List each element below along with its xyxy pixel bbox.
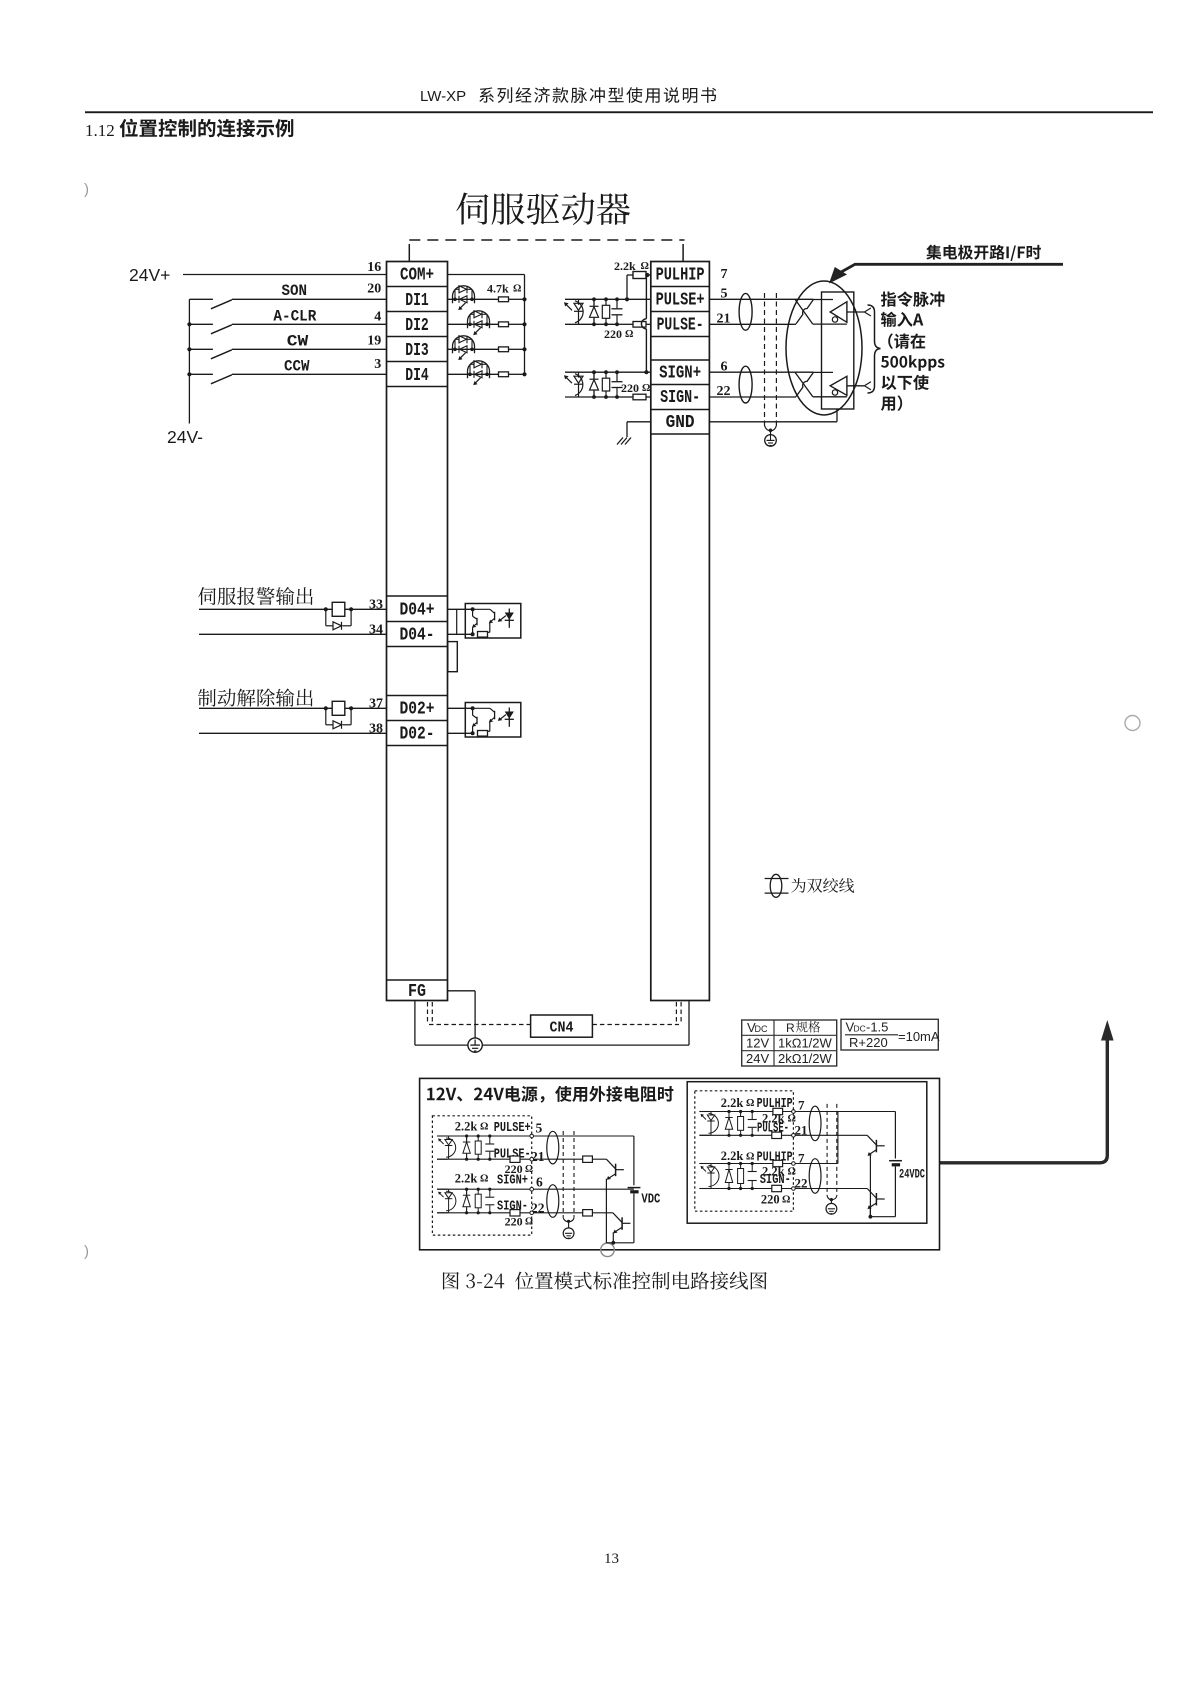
svg-text:DI2: DI2 — [405, 316, 429, 336]
svg-text:Ω: Ω — [513, 284, 521, 295]
svg-text:PULSE+: PULSE+ — [656, 290, 705, 310]
svg-text:D02+: D02+ — [400, 699, 435, 719]
svg-text:Ω: Ω — [480, 1122, 488, 1133]
svg-text:19: 19 — [367, 334, 381, 349]
svg-text:2.2k: 2.2k — [721, 1096, 744, 1110]
svg-text:Ω: Ω — [782, 1195, 790, 1206]
svg-text:21: 21 — [795, 1123, 808, 1138]
svg-text:24VDC: 24VDC — [899, 1167, 925, 1182]
svg-text:34: 34 — [369, 623, 383, 638]
svg-text:24V+: 24V+ — [129, 265, 170, 285]
svg-text:1.12: 1.12 — [85, 121, 115, 140]
svg-text:A-CLR: A-CLR — [273, 308, 317, 326]
svg-text:LW-XP: LW-XP — [420, 88, 466, 105]
svg-text:13: 13 — [604, 1551, 619, 1567]
svg-text:22: 22 — [795, 1176, 808, 1191]
svg-text:24V-: 24V- — [167, 427, 203, 447]
svg-text:DI1: DI1 — [405, 291, 429, 311]
svg-text:Ω: Ω — [642, 383, 650, 394]
svg-text:Ω: Ω — [746, 1098, 754, 1109]
svg-text:220: 220 — [621, 381, 639, 395]
svg-text:-1.5: -1.5 — [866, 1020, 888, 1035]
svg-text:COM+: COM+ — [400, 266, 434, 286]
svg-text:Ω: Ω — [525, 1217, 533, 1228]
svg-text:VDC: VDC — [641, 1193, 660, 1208]
svg-text:FG: FG — [408, 982, 426, 1002]
svg-text:DC: DC — [755, 1024, 768, 1034]
svg-text:20: 20 — [367, 282, 381, 297]
svg-text:2.2k: 2.2k — [614, 259, 636, 273]
svg-text:Ω: Ω — [641, 261, 649, 272]
svg-text:7: 7 — [798, 1151, 805, 1166]
svg-text:SON: SON — [281, 282, 307, 300]
svg-text:D04+: D04+ — [400, 600, 435, 620]
svg-text:SIGN+: SIGN+ — [659, 364, 701, 384]
svg-text:DC: DC — [854, 1024, 866, 1034]
svg-text:GND: GND — [666, 413, 695, 433]
svg-text:CCW: CCW — [284, 357, 310, 375]
svg-text:D02-: D02- — [400, 724, 435, 744]
svg-text:Ω: Ω — [625, 329, 633, 340]
svg-text:CW: CW — [287, 333, 309, 351]
svg-text:SIGN-: SIGN- — [660, 388, 700, 408]
svg-text:2.2k: 2.2k — [721, 1149, 744, 1163]
svg-text:220: 220 — [761, 1193, 780, 1207]
svg-text:PULSE+: PULSE+ — [494, 1121, 531, 1136]
svg-text:6: 6 — [536, 1174, 543, 1189]
svg-text:1kΩ1/2W: 1kΩ1/2W — [778, 1036, 833, 1051]
svg-text:Ω: Ω — [480, 1174, 488, 1185]
svg-text:16: 16 — [367, 260, 381, 275]
svg-text:R+220: R+220 — [849, 1035, 888, 1050]
svg-text:4: 4 — [374, 310, 381, 325]
svg-text:24V: 24V — [746, 1051, 769, 1066]
svg-text:=10mA: =10mA — [898, 1029, 940, 1044]
svg-text:37: 37 — [369, 697, 383, 712]
svg-text:): ) — [84, 181, 89, 198]
svg-text:3: 3 — [374, 357, 381, 372]
svg-text:R: R — [786, 1021, 795, 1035]
svg-text:PULHIP: PULHIP — [656, 265, 705, 285]
svg-text:CN4: CN4 — [550, 1020, 574, 1037]
svg-text:SIGN+: SIGN+ — [497, 1174, 528, 1189]
svg-text:PULSE-: PULSE- — [657, 315, 704, 335]
svg-text:5: 5 — [536, 1121, 543, 1136]
svg-text:D04-: D04- — [400, 625, 435, 645]
svg-text:38: 38 — [369, 722, 383, 737]
svg-text:Ω: Ω — [746, 1151, 754, 1162]
svg-text:2.2k: 2.2k — [455, 1120, 478, 1134]
svg-text:220: 220 — [604, 327, 622, 341]
svg-text:21: 21 — [531, 1149, 545, 1164]
svg-text:DI3: DI3 — [405, 341, 429, 361]
svg-text:7: 7 — [798, 1098, 805, 1113]
svg-text:12V: 12V — [746, 1036, 769, 1051]
svg-text:4.7k: 4.7k — [487, 282, 509, 296]
svg-text:33: 33 — [369, 598, 383, 613]
svg-text:): ) — [84, 1243, 89, 1260]
svg-text:2kΩ1/2W: 2kΩ1/2W — [778, 1051, 833, 1066]
svg-text:DI4: DI4 — [405, 366, 429, 386]
svg-text:7: 7 — [721, 267, 728, 282]
svg-text:2.2k: 2.2k — [455, 1172, 478, 1186]
